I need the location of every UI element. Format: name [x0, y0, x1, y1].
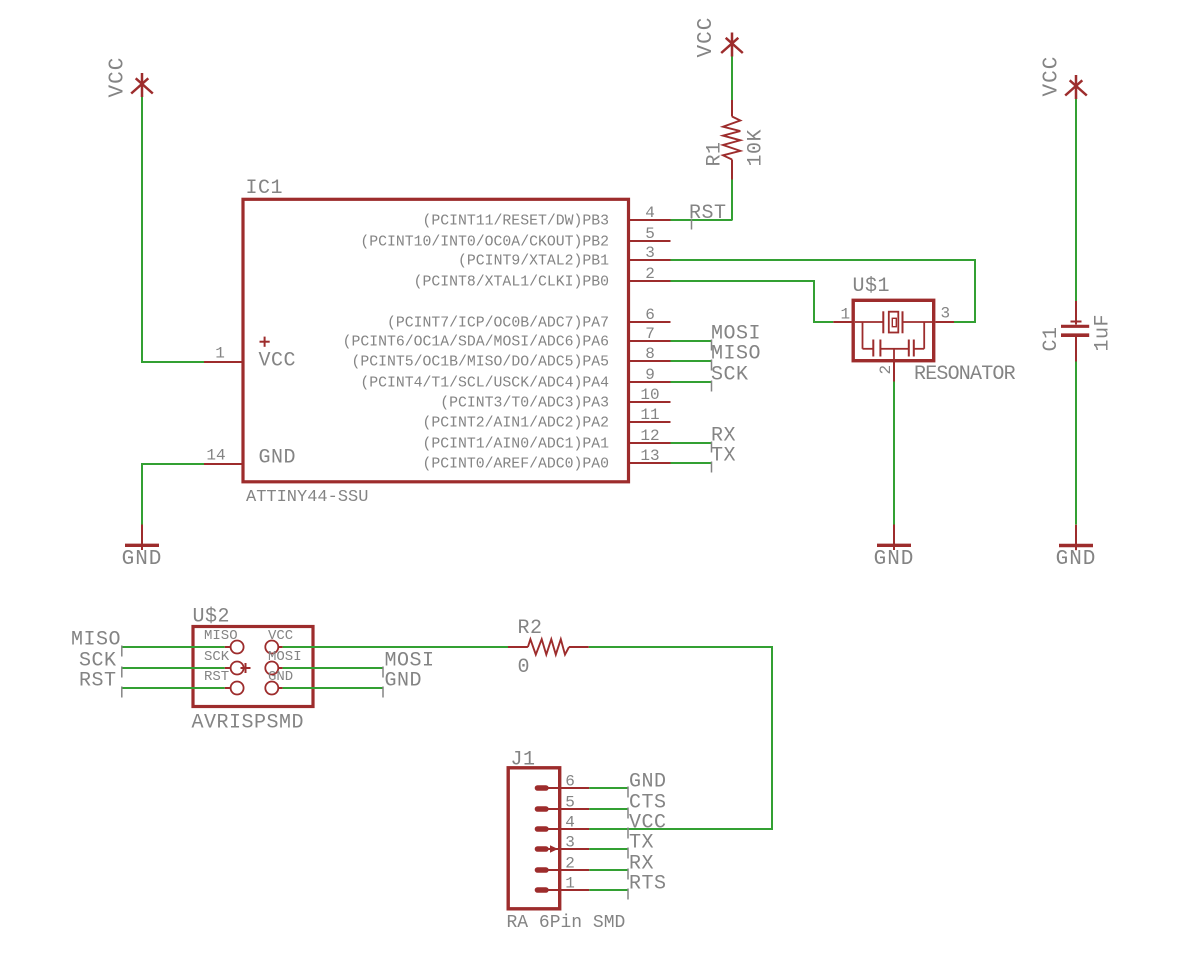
resistor R1 — [723, 100, 740, 180]
svg-text:VCC: VCC — [695, 17, 718, 58]
wire net GND from J1 — [589, 787, 628, 789]
svg-text:4: 4 — [565, 814, 575, 832]
svg-text:7: 7 — [645, 325, 655, 343]
svg-text:(PCINT7/ICP/OC0B/ADC7)PA7: (PCINT7/ICP/OC0B/ADC7)PA7 — [387, 316, 609, 332]
svg-text:(PCINT11/RESET/DW)PB3: (PCINT11/RESET/DW)PB3 — [423, 214, 609, 230]
svg-text:MOSI: MOSI — [268, 649, 302, 665]
wire VCC to R1 — [731, 57, 733, 101]
wire PB0 to resonator pin 1 — [671, 281, 834, 322]
net label MOSI — [383, 650, 435, 678]
resistor R2 — [508, 639, 589, 654]
net label TX — [628, 832, 654, 859]
pin 1 cross mark on SCK pad — [241, 663, 251, 673]
svg-text:GND: GND — [122, 548, 163, 571]
pin 3 of U$1 — [936, 305, 955, 323]
svg-text:(PCINT6/OC1A/SDA/MOSI/ADC6)PA6: (PCINT6/OC1A/SDA/MOSI/ADC6)PA6 — [343, 335, 609, 351]
svg-text:(PCINT3/T0/ADC3)PA3: (PCINT3/T0/ADC3)PA3 — [440, 396, 609, 412]
svg-text:GND: GND — [385, 670, 423, 693]
svg-text:13: 13 — [640, 447, 659, 465]
svg-text:RST: RST — [204, 669, 229, 685]
wire VCC to C1 — [1075, 99, 1077, 301]
svg-text:5: 5 — [645, 225, 655, 243]
svg-text:GND: GND — [874, 548, 915, 571]
wire VCC rail to IC1 pin 1 — [142, 97, 204, 362]
svg-text:6: 6 — [565, 773, 575, 791]
net label RX — [711, 425, 736, 453]
svg-text:RA 6Pin SMD: RA 6Pin SMD — [507, 913, 626, 933]
svg-text:(PCINT8/XTAL1/CLKI)PB0: (PCINT8/XTAL1/CLKI)PB0 — [414, 275, 609, 291]
pin 8 (PA5) of IC1 — [351, 345, 670, 371]
svg-text:10: 10 — [640, 386, 659, 404]
wire J1 VCC pin (joins R2 net) — [589, 828, 628, 830]
svg-text:VCC: VCC — [268, 628, 293, 644]
pin 1 VCC of IC1 — [204, 345, 242, 363]
wire R2 to J1 VCC — [589, 647, 772, 829]
svg-text:U$2: U$2 — [193, 606, 231, 629]
pin 5 (PB2) of IC1 — [360, 225, 670, 251]
pin 11 (PA2) of IC1 — [423, 406, 671, 432]
capacitor C1 — [1061, 301, 1089, 362]
pad VCC of U$2 — [265, 628, 293, 653]
wire net CTS from J1 — [589, 808, 628, 810]
svg-text:AVRISPSMD: AVRISPSMD — [192, 712, 305, 735]
connector J1 body — [508, 768, 560, 909]
svg-text:GND: GND — [268, 669, 293, 685]
svg-text:RST: RST — [689, 202, 727, 225]
pad GND of U$2 — [265, 669, 293, 694]
net label SCK — [79, 650, 122, 678]
svg-text:MISO: MISO — [711, 343, 761, 366]
pin 12 (PA1) of IC1 — [423, 427, 671, 453]
svg-text:VCC: VCC — [1041, 56, 1064, 97]
svg-text:R1: R1 — [704, 141, 727, 166]
wire net MOSI from U$2 — [283, 667, 383, 669]
svg-text:MISO: MISO — [71, 629, 121, 652]
supply VCC symbol (above R1) — [695, 17, 743, 58]
supply VCC symbol (above C1) — [1041, 56, 1087, 99]
wire U$2 VCC pad to R2 — [283, 646, 508, 648]
pad MISO of U$2 — [204, 628, 244, 653]
svg-text:VCC: VCC — [107, 57, 130, 98]
wire IC1 pin 14 to GND — [142, 464, 204, 525]
pin 1 (RTS) of J1 — [535, 875, 590, 893]
svg-text:14: 14 — [206, 447, 225, 465]
pin 9 (PA4) of IC1 — [360, 366, 670, 392]
wire net TX from J1 — [589, 848, 628, 850]
net label MISO — [711, 343, 761, 371]
wire R1 to RST node — [731, 180, 733, 221]
net label RST — [79, 670, 122, 698]
svg-text:0: 0 — [518, 656, 531, 679]
svg-text:(PCINT1/AIN0/ADC1)PA1: (PCINT1/AIN0/ADC1)PA1 — [423, 437, 610, 453]
svg-text:RST: RST — [79, 670, 117, 693]
plus mark on VCC pin — [260, 337, 270, 347]
svg-text:1: 1 — [215, 345, 225, 363]
pin 13 (PA0) of IC1 — [423, 447, 671, 473]
pin 7 (PA6) of IC1 — [343, 325, 671, 351]
net label SCK — [711, 364, 749, 392]
svg-text:TX: TX — [711, 445, 736, 468]
pin 2 of U$1 — [877, 362, 895, 382]
net label TX — [711, 445, 736, 473]
pin 5 (CTS) of J1 — [535, 794, 590, 812]
wire net MISO to U$2 — [122, 646, 225, 648]
svg-text:R2: R2 — [518, 617, 543, 640]
svg-text:VCC: VCC — [259, 350, 297, 373]
svg-text:(PCINT10/INT0/OC0A/CKOUT)PB2: (PCINT10/INT0/OC0A/CKOUT)PB2 — [360, 235, 609, 251]
svg-text:3: 3 — [941, 305, 951, 323]
svg-text:ATTINY44-SSU: ATTINY44-SSU — [246, 488, 368, 507]
svg-text:1uF: 1uF — [1092, 314, 1115, 352]
pin 1 of U$1 — [833, 306, 851, 324]
wire net RST to U$2 — [122, 687, 225, 689]
svg-text:2: 2 — [645, 265, 655, 283]
wire RST from IC1 pin 4 — [671, 219, 733, 221]
svg-text:6: 6 — [645, 306, 655, 324]
pin 3 arrow mark — [550, 845, 558, 853]
svg-text:3: 3 — [565, 834, 575, 852]
svg-text:U$1: U$1 — [853, 275, 891, 298]
wire net TX — [671, 462, 712, 464]
wire PB1 to resonator pin 3 — [671, 260, 976, 322]
svg-text:5: 5 — [565, 794, 575, 812]
svg-text:3: 3 — [645, 244, 655, 262]
svg-text:9: 9 — [645, 366, 655, 384]
wire net RX — [671, 442, 712, 444]
header U$2 AVRISPSMD body — [193, 627, 313, 707]
pin 2 (RX) of J1 — [535, 855, 590, 873]
svg-text:GND: GND — [1056, 548, 1097, 571]
pin 4 (VCC) of J1 — [535, 814, 590, 832]
svg-text:2: 2 — [565, 855, 575, 873]
svg-text:J1: J1 — [511, 749, 536, 772]
svg-text:RTS: RTS — [629, 873, 667, 896]
svg-text:(PCINT9/XTAL2)PB1: (PCINT9/XTAL2)PB1 — [458, 254, 609, 270]
resonator U$1 body — [853, 300, 934, 360]
svg-text:GND: GND — [259, 447, 297, 470]
pin 2 (PB0) of IC1 — [414, 265, 671, 291]
svg-text:IC1: IC1 — [246, 177, 284, 200]
pad SCK of U$2 — [204, 649, 244, 674]
svg-text:(PCINT4/T1/SCL/USCK/ADC4)PA4: (PCINT4/T1/SCL/USCK/ADC4)PA4 — [360, 376, 609, 392]
svg-text:SCK: SCK — [204, 649, 230, 665]
pin 4 (PB3) of IC1 — [423, 204, 671, 230]
svg-text:TX: TX — [629, 832, 654, 855]
crystal and caps inside resonator — [855, 311, 932, 360]
pin 14 GND of IC1 — [204, 447, 242, 465]
pin 6 (GND) of J1 — [535, 773, 590, 791]
pin 3 (TX) of J1 — [535, 834, 590, 852]
svg-text:1: 1 — [565, 875, 575, 893]
wire net RTS from J1 — [589, 889, 628, 891]
wire C1 to GND — [1075, 362, 1077, 525]
IC IC1 ATTINY44-SSU body — [243, 199, 629, 482]
svg-text:C1: C1 — [1040, 326, 1063, 351]
svg-text:SCK: SCK — [711, 364, 749, 387]
net label RX — [628, 853, 654, 880]
svg-text:10K: 10K — [745, 129, 768, 167]
net label CTS — [628, 792, 667, 819]
net label MOSI — [711, 323, 761, 351]
pad MOSI of U$2 — [265, 649, 301, 674]
svg-text:1: 1 — [840, 306, 850, 324]
wire net MOSI — [671, 340, 712, 342]
svg-text:2: 2 — [877, 365, 895, 375]
net label GND — [383, 670, 422, 698]
ground GND (below resonator) — [874, 525, 915, 572]
net label RTS — [628, 873, 667, 900]
ground GND (below C1) — [1056, 525, 1097, 572]
net label GND — [628, 771, 667, 798]
net label RST — [689, 202, 727, 230]
wire net GND from U$2 — [283, 687, 383, 689]
pad RST of U$2 — [204, 669, 244, 694]
pin 3 (PB1) of IC1 — [458, 244, 670, 270]
svg-text:4: 4 — [645, 204, 655, 222]
pin 10 (PA3) of IC1 — [440, 386, 670, 412]
svg-text:GND: GND — [629, 771, 667, 794]
wire net SCK — [671, 381, 712, 383]
svg-text:11: 11 — [640, 406, 659, 424]
svg-text:RESONATOR: RESONATOR — [914, 363, 1016, 386]
pin 6 (PA7) of IC1 — [387, 306, 671, 332]
svg-text:MISO: MISO — [204, 628, 238, 644]
net label MISO — [71, 629, 122, 657]
svg-text:8: 8 — [645, 345, 655, 363]
wire net RX from J1 — [589, 869, 628, 871]
net label VCC — [628, 812, 667, 839]
svg-text:12: 12 — [640, 427, 659, 445]
wire net SCK to U$2 — [122, 667, 225, 669]
wire resonator pin 2 to GND — [893, 382, 895, 525]
svg-text:(PCINT5/OC1B/MISO/DO/ADC5)PA5: (PCINT5/OC1B/MISO/DO/ADC5)PA5 — [351, 355, 609, 371]
wire net MISO — [671, 360, 712, 362]
ground GND (bottom left) — [122, 525, 163, 572]
svg-text:(PCINT0/AREF/ADC0)PA0: (PCINT0/AREF/ADC0)PA0 — [423, 457, 609, 473]
svg-text:(PCINT2/AIN1/ADC2)PA2: (PCINT2/AIN1/ADC2)PA2 — [423, 416, 609, 432]
supply VCC symbol (top left) — [107, 57, 153, 98]
